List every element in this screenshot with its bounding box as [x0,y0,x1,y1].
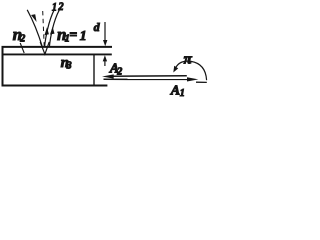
film top surface line [2,46,113,48]
ray 2 arrowhead [50,27,55,35]
svg-text:1: 1 [80,29,87,44]
incident ray [27,10,42,47]
d dimension lower arrow [104,60,106,66]
svg-text:=: = [69,28,77,43]
normal (dashed) [43,11,45,46]
pi arc arrowhead [173,66,178,73]
d dimension upper arrow [104,22,106,42]
svg-text:A: A [170,84,180,99]
ray 1 [45,10,55,47]
ray 2 [49,10,59,47]
slab left edge [2,46,4,86]
svg-text:2: 2 [57,0,64,13]
svg-text:1: 1 [180,88,185,99]
svg-text:π: π [184,51,193,67]
svg-text:1: 1 [52,1,57,14]
incident ray arrowhead [31,14,37,22]
slab right edge [93,55,95,86]
pi rotation arc [175,61,207,80]
refracted V path inside film [40,42,49,54]
ray 1 arrowhead [44,27,49,35]
svg-text:2: 2 [116,67,122,78]
svg-text:d: d [94,20,101,34]
n2 leader tick [20,43,24,53]
dashed continuation after A1 head [196,81,207,83]
phasor A1 arrow (points right) [104,78,191,80]
phasor A2 arrow (points left) [111,75,187,78]
svg-text:2: 2 [19,34,25,45]
slab bottom edge [2,84,108,86]
film bottom / substrate top line [2,53,112,55]
svg-text:3: 3 [66,61,72,72]
